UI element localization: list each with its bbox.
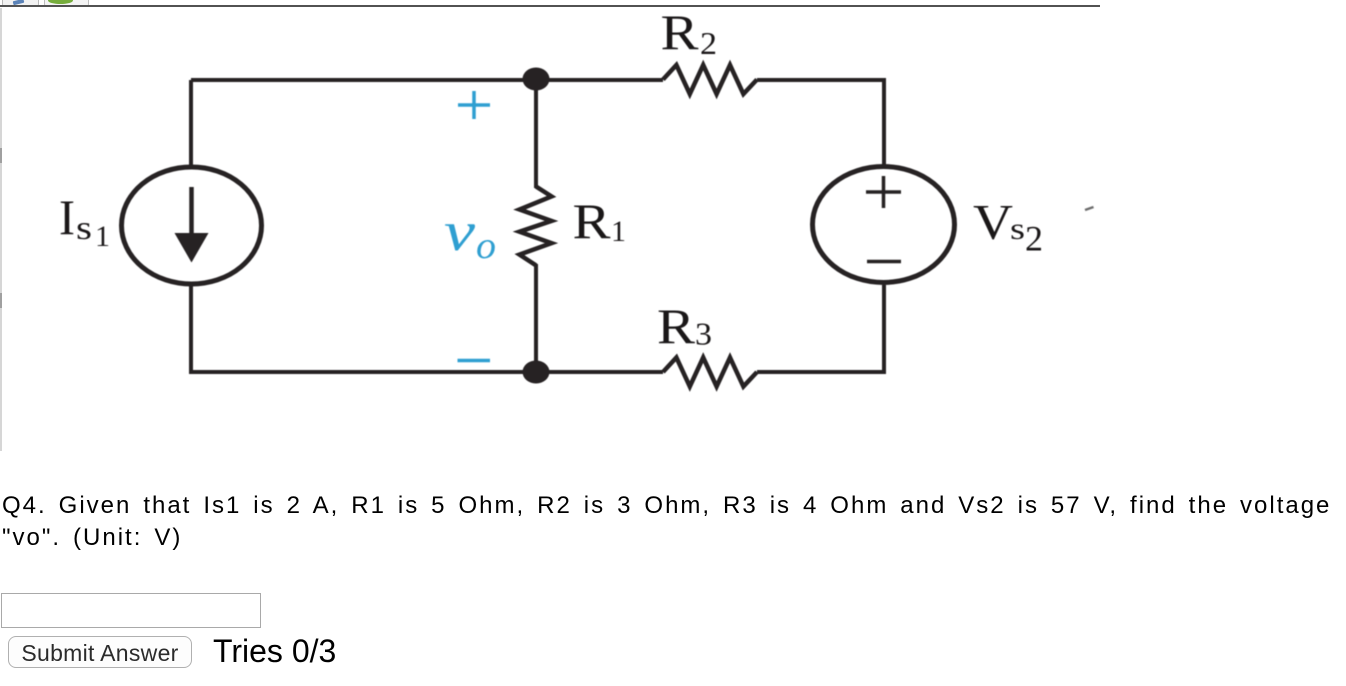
svg-text:R: R bbox=[657, 298, 696, 354]
vo label (cyan italic) bbox=[444, 201, 496, 267]
node B junction dot bbox=[523, 361, 550, 384]
svg-text:o: o bbox=[476, 225, 496, 267]
question text bbox=[2, 490, 1346, 554]
vo plus sign (cyan) bbox=[458, 91, 490, 119]
Vs2 plus sign bbox=[866, 176, 901, 208]
svg-text:3: 3 bbox=[695, 316, 712, 352]
label R3 bbox=[657, 298, 712, 354]
svg-text:s: s bbox=[1010, 211, 1025, 246]
svg-text:v: v bbox=[444, 201, 475, 263]
svg-text:R: R bbox=[661, 4, 700, 60]
resistor R2 (horizontal zigzag) bbox=[663, 65, 757, 94]
horizontal rule under toolbar bbox=[0, 5, 1100, 7]
svg-text:2: 2 bbox=[700, 25, 717, 61]
wire: node A down to R1 bbox=[534, 80, 538, 188]
Submit Answer button bbox=[8, 636, 192, 668]
svg-text:2: 2 bbox=[1025, 219, 1043, 259]
wire: Is1 top lead bbox=[189, 80, 193, 167]
wire: top node A to R2 bbox=[536, 78, 663, 82]
svg-text:V: V bbox=[973, 194, 1013, 250]
svg-text:R: R bbox=[573, 193, 612, 249]
resistor R1 (vertical zigzag) bbox=[520, 187, 552, 266]
current source Is1 circle bbox=[122, 167, 262, 284]
toolbar button 1 blue glyph bbox=[13, 0, 25, 5]
label R1 bbox=[573, 193, 627, 249]
resistor R3 (horizontal zigzag) bbox=[663, 358, 757, 387]
left border of schematic image bbox=[0, 8, 2, 451]
label Is1 bbox=[59, 189, 110, 253]
svg-text:I: I bbox=[59, 189, 75, 245]
node A junction dot bbox=[523, 68, 550, 91]
wire: R1 bottom to node B bbox=[534, 264, 538, 372]
wire: Vs2 bottom to bottom-right corner, to R3 bbox=[757, 285, 884, 372]
toolbar button 2 green glyph bbox=[48, 0, 73, 4]
Tries 0/3 bbox=[213, 633, 336, 670]
answer input box bbox=[1, 593, 261, 628]
label R2 bbox=[661, 4, 718, 61]
svg-text:1: 1 bbox=[611, 215, 626, 248]
stray dash artifact right of Vs2 bbox=[1085, 207, 1094, 210]
label Vs2 bbox=[973, 194, 1043, 259]
svg-text:s: s bbox=[76, 210, 92, 247]
wire: R2 to top-right corner, down to Vs2 top bbox=[757, 80, 884, 166]
vo minus sign (cyan) bbox=[458, 359, 491, 363]
toolbar button 1 (cut off at top) bbox=[2, 0, 39, 7]
circuit schematic svg bbox=[0, 0, 1120, 480]
voltage source Vs2 circle bbox=[813, 167, 955, 283]
wire: bottom node B to bottom-left corner, Is1 bottom bbox=[191, 286, 536, 372]
svg-text:1: 1 bbox=[95, 220, 110, 253]
toolbar button 2 (cut off at top) bbox=[44, 0, 89, 7]
current source Is1 arrow bbox=[189, 187, 194, 240]
wire: top left segment (Is1 top to node A) bbox=[191, 78, 536, 82]
Vs2 minus sign bbox=[867, 260, 901, 264]
wire: R3 to bottom node B bbox=[536, 370, 663, 374]
